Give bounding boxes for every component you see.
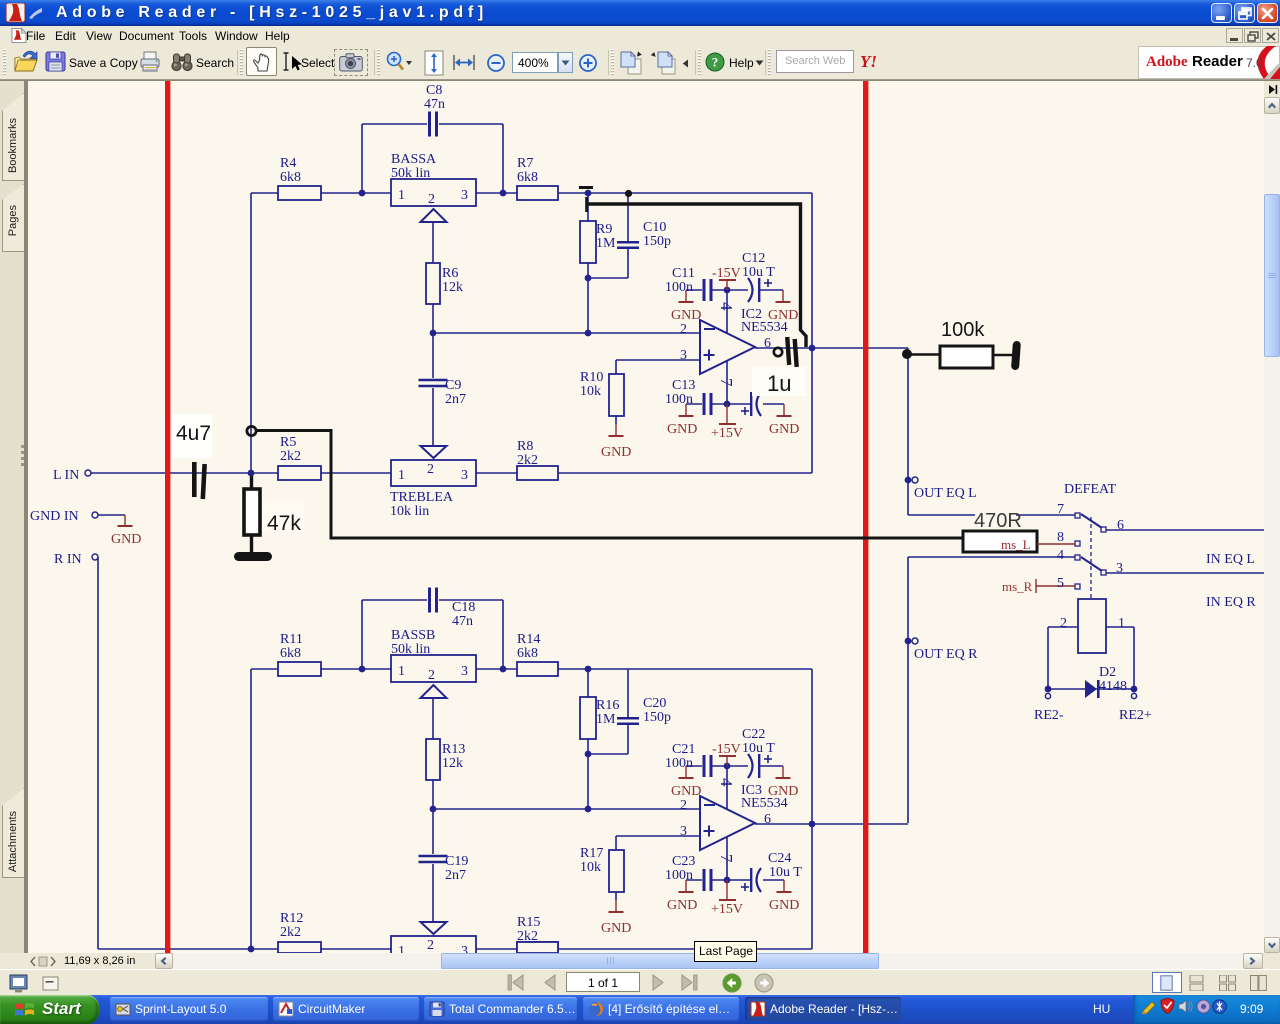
svg-text:-15V: -15V — [712, 742, 741, 757]
svg-text:2: 2 — [427, 938, 434, 953]
svg-text:-15V: -15V — [712, 266, 741, 281]
svg-text:L IN: L IN — [53, 468, 79, 483]
svg-text:C24: C24 — [768, 851, 791, 866]
svg-text:4u7: 4u7 — [176, 422, 211, 445]
svg-text:D2: D2 — [1099, 665, 1116, 680]
svg-text:2: 2 — [427, 462, 434, 477]
svg-text:2: 2 — [428, 668, 435, 683]
svg-text:1: 1 — [398, 468, 405, 483]
svg-text:C13: C13 — [672, 378, 695, 393]
svg-text:7: 7 — [717, 378, 736, 387]
svg-text:R5: R5 — [280, 435, 296, 450]
svg-text:8: 8 — [1057, 530, 1064, 545]
svg-text:GND: GND — [667, 422, 697, 437]
svg-text:RE2-: RE2- — [1034, 708, 1064, 723]
svg-text:12k: 12k — [442, 280, 463, 295]
svg-text:R10: R10 — [580, 370, 603, 385]
svg-text:C23: C23 — [672, 854, 695, 869]
svg-text:BASSA: BASSA — [391, 152, 437, 167]
svg-text:10k lin: 10k lin — [390, 504, 429, 519]
svg-text:50k lin: 50k lin — [391, 166, 430, 181]
svg-text:R11: R11 — [280, 632, 303, 647]
svg-text:NE5534: NE5534 — [741, 320, 788, 335]
svg-text:470R: 470R — [974, 510, 1022, 532]
svg-text:GND: GND — [769, 898, 799, 913]
svg-text:R7: R7 — [517, 156, 533, 171]
svg-text:NE5534: NE5534 — [741, 796, 788, 811]
svg-text:3: 3 — [461, 944, 468, 953]
svg-text:2n7: 2n7 — [445, 868, 466, 883]
svg-text:1M: 1M — [596, 236, 616, 251]
svg-text:GND: GND — [671, 784, 701, 799]
svg-text:10u T: 10u T — [742, 265, 775, 280]
svg-text:2k2: 2k2 — [517, 453, 538, 468]
svg-text:3: 3 — [1116, 561, 1123, 576]
svg-text:GND: GND — [667, 898, 697, 913]
svg-text:R IN: R IN — [54, 552, 82, 567]
svg-text:3: 3 — [680, 824, 687, 839]
svg-text:C20: C20 — [643, 696, 666, 711]
svg-text:ms_L: ms_L — [1001, 537, 1031, 552]
svg-text:4: 4 — [717, 778, 736, 787]
svg-text:R4: R4 — [280, 156, 296, 171]
svg-text:1: 1 — [398, 188, 405, 203]
svg-text:100n: 100n — [665, 868, 693, 883]
svg-text:100k: 100k — [941, 319, 985, 341]
svg-text:2n7: 2n7 — [445, 392, 466, 407]
svg-text:C8: C8 — [426, 83, 442, 98]
svg-text:7: 7 — [717, 854, 736, 863]
svg-text:IN EQ R: IN EQ R — [1206, 595, 1256, 610]
svg-text:+15V: +15V — [711, 902, 743, 917]
svg-text:R9: R9 — [596, 222, 612, 237]
svg-text:TREBLEA: TREBLEA — [390, 490, 454, 505]
svg-text:GND IN: GND IN — [30, 509, 79, 524]
svg-text:R15: R15 — [517, 915, 540, 930]
svg-text:3: 3 — [680, 348, 687, 363]
svg-text:R6: R6 — [442, 266, 458, 281]
svg-text:6k8: 6k8 — [280, 646, 301, 661]
svg-text:10k: 10k — [580, 384, 601, 399]
svg-text:2: 2 — [680, 798, 687, 813]
svg-text:6k8: 6k8 — [517, 646, 538, 661]
svg-text:100n: 100n — [665, 392, 693, 407]
svg-text:2: 2 — [1060, 616, 1067, 631]
svg-text:4: 4 — [1057, 548, 1064, 563]
svg-text:R17: R17 — [580, 846, 603, 861]
svg-text:47n: 47n — [424, 97, 445, 112]
svg-text:6: 6 — [1117, 518, 1124, 533]
svg-text:3: 3 — [461, 664, 468, 679]
svg-text:R16: R16 — [596, 698, 619, 713]
svg-text:50k lin: 50k lin — [391, 642, 430, 657]
svg-text:GND: GND — [601, 921, 631, 936]
svg-text:R12: R12 — [280, 911, 303, 926]
svg-text:2: 2 — [428, 192, 435, 207]
svg-text:47k: 47k — [267, 512, 301, 535]
svg-text:2k2: 2k2 — [280, 449, 301, 464]
svg-text:2: 2 — [680, 322, 687, 337]
svg-text:IN EQ L: IN EQ L — [1206, 552, 1255, 567]
svg-text:R8: R8 — [517, 439, 533, 454]
svg-text:R13: R13 — [442, 742, 465, 757]
svg-text:ms_R: ms_R — [1002, 579, 1033, 594]
svg-text:2k2: 2k2 — [517, 929, 538, 944]
svg-text:10u T: 10u T — [769, 865, 802, 880]
svg-text:BASSB: BASSB — [391, 628, 435, 643]
svg-text:47n: 47n — [452, 614, 473, 629]
svg-text:R14: R14 — [517, 632, 540, 647]
svg-text:100n: 100n — [665, 756, 693, 771]
svg-text:+15V: +15V — [711, 426, 743, 441]
svg-text:4148: 4148 — [1099, 679, 1127, 694]
svg-text:RE2+: RE2+ — [1119, 708, 1152, 723]
svg-text:C11: C11 — [672, 266, 695, 281]
svg-text:GND: GND — [111, 532, 141, 547]
svg-text:OUT EQ R: OUT EQ R — [914, 647, 978, 662]
svg-text:1: 1 — [1118, 616, 1125, 631]
svg-text:4: 4 — [717, 302, 736, 311]
svg-text:GND: GND — [671, 308, 701, 323]
svg-text:10k: 10k — [580, 860, 601, 875]
svg-text:C9: C9 — [445, 378, 461, 393]
svg-text:150p: 150p — [643, 710, 671, 725]
svg-text:1: 1 — [398, 664, 405, 679]
svg-text:6: 6 — [764, 336, 771, 351]
svg-text:100n: 100n — [665, 280, 693, 295]
svg-text:12k: 12k — [442, 756, 463, 771]
svg-text:1M: 1M — [596, 712, 616, 727]
svg-text:C12: C12 — [742, 251, 765, 266]
svg-text:C18: C18 — [452, 600, 475, 615]
svg-text:GND: GND — [601, 445, 631, 460]
svg-text:7: 7 — [1057, 502, 1064, 517]
svg-text:C21: C21 — [672, 742, 695, 757]
svg-text:6k8: 6k8 — [280, 170, 301, 185]
svg-text:C10: C10 — [643, 220, 666, 235]
svg-text:6k8: 6k8 — [517, 170, 538, 185]
svg-text:DEFEAT: DEFEAT — [1064, 482, 1117, 497]
svg-text:1u: 1u — [767, 371, 791, 396]
svg-text:5: 5 — [1057, 576, 1064, 591]
svg-text:3: 3 — [461, 468, 468, 483]
svg-text:C22: C22 — [742, 727, 765, 742]
svg-text:1: 1 — [398, 944, 405, 953]
svg-text:OUT EQ L: OUT EQ L — [914, 486, 977, 501]
svg-text:?: ? — [712, 55, 719, 70]
svg-text:3: 3 — [461, 188, 468, 203]
svg-text:GND: GND — [769, 422, 799, 437]
svg-text:6: 6 — [764, 812, 771, 827]
svg-text:10u T: 10u T — [742, 741, 775, 756]
svg-text:150p: 150p — [643, 234, 671, 249]
svg-text:2k2: 2k2 — [280, 925, 301, 940]
svg-text:C19: C19 — [445, 854, 468, 869]
